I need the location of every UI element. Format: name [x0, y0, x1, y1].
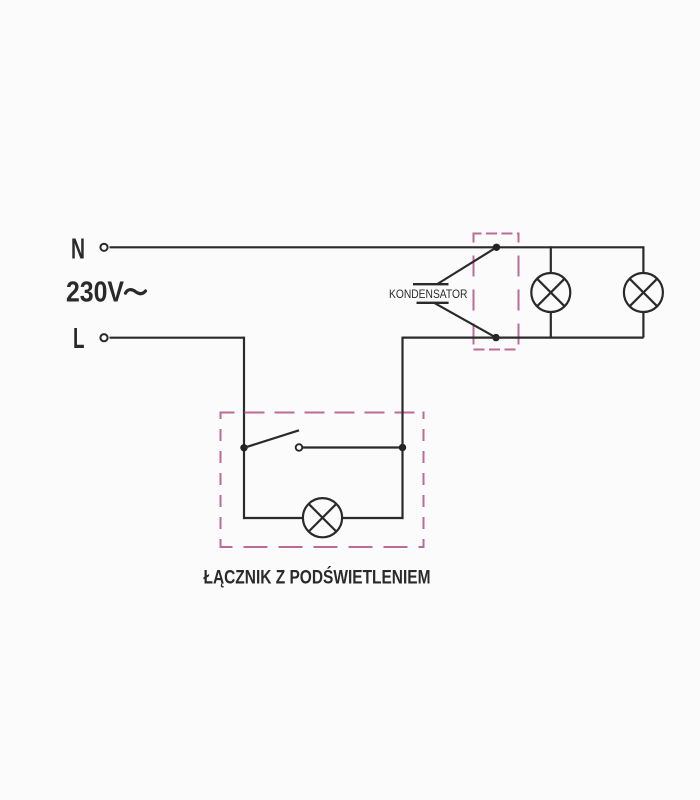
tilde of 230V~ — [126, 290, 146, 294]
lamp E3 (inside switch box) — [303, 498, 342, 537]
wire vertical drop from L to switch box — [243, 337, 245, 519]
svg-text:ŁĄCZNIK Z PODŚWIETLENIEM: ŁĄCZNIK Z PODŚWIETLENIEM — [204, 567, 431, 589]
svg-text:L: L — [73, 323, 85, 355]
junction dot switch pivot — [240, 444, 247, 451]
lamp E2 — [624, 246, 663, 337]
terminal L — [100, 334, 107, 341]
capacitor C1 bottom plate — [417, 302, 449, 304]
capacitor lead bottom diagonal — [435, 303, 496, 337]
svg-text:KONDENSATOR: KONDENSATOR — [389, 287, 468, 301]
junction dot capacitor top — [493, 244, 500, 251]
wire N horizontal — [110, 246, 644, 248]
wire bottom right bus — [403, 337, 644, 339]
wire switch output horizontal — [303, 446, 403, 448]
dashed box kondensator — [474, 233, 519, 351]
wire right vertical of switch box — [401, 337, 403, 519]
svg-text:230V: 230V — [66, 276, 125, 308]
lamp E1 — [531, 246, 570, 337]
svg-text:N: N — [71, 234, 85, 266]
junction dot capacitor bottom — [492, 334, 499, 341]
dashed box switch (lacznik) — [221, 412, 424, 549]
capacitor C1 top plate — [413, 283, 449, 285]
terminal N — [100, 244, 107, 251]
switch contact circle — [296, 444, 303, 451]
wire bottom left segment to lamp — [243, 517, 304, 519]
junction dot switch right — [399, 444, 406, 451]
capacitor lead top diagonal — [437, 247, 496, 284]
wire L horizontal — [110, 337, 245, 339]
wire bottom right segment from lamp — [342, 517, 404, 519]
switch S1 lever — [244, 430, 299, 448]
